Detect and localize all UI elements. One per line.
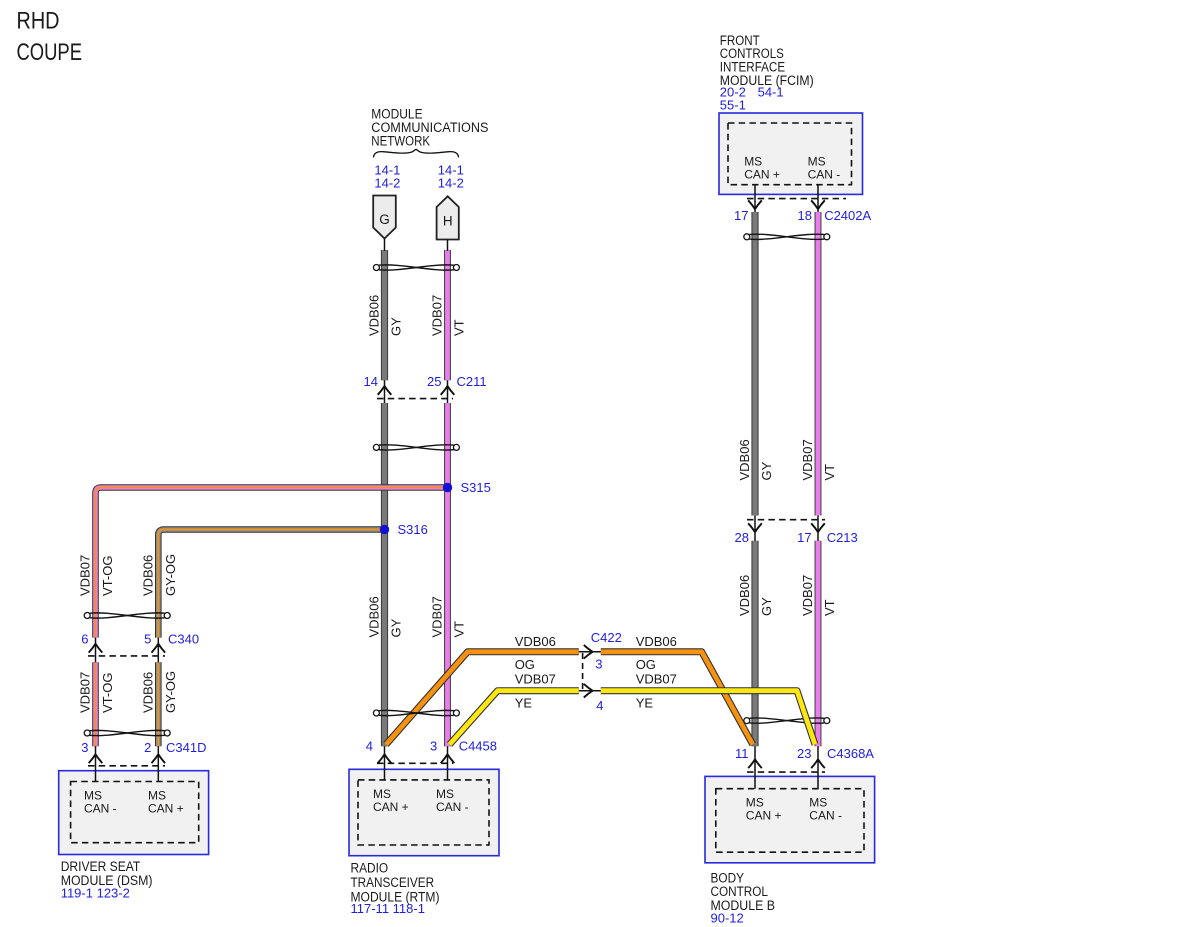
svg-text:CAN +: CAN +: [744, 167, 780, 181]
svg-text:23: 23: [797, 746, 811, 761]
svg-text:VDB06: VDB06: [140, 672, 155, 713]
wire VDB07 VT middle segment 2 (C211 to C4458 pin 3): [444, 403, 451, 746]
svg-text:CONTROL: CONTROL: [711, 884, 769, 899]
svg-text:C2402A: C2402A: [824, 208, 871, 223]
svg-text:GY: GY: [759, 461, 774, 480]
svg-text:OG: OG: [636, 657, 656, 672]
svg-text:11: 11: [735, 746, 749, 761]
connector C422 dashed line: [582, 653, 584, 690]
connector C4368A arrow pin 11: [748, 759, 762, 768]
svg-text:VT-OG: VT-OG: [100, 556, 115, 596]
svg-text:RHD: RHD: [17, 7, 60, 34]
svg-text:6: 6: [81, 632, 88, 647]
svg-text:GY-OG: GY-OG: [163, 554, 178, 596]
wire VDB06 OG from RTM pin 4 to C422 pin 3 left: [386, 652, 579, 745]
svg-text:DRIVER SEAT: DRIVER SEAT: [61, 859, 141, 874]
svg-text:OG: OG: [515, 657, 535, 672]
connector C2402A arrow pin 17: [748, 200, 762, 209]
svg-text:VDB07: VDB07: [515, 672, 556, 687]
svg-text:VT: VT: [452, 621, 467, 638]
wire VDB06 GY middle segment 2 (C211 to C4458 pin 4): [381, 403, 388, 746]
twisted pair symbol middle top: [373, 265, 459, 271]
svg-text:119-1 123-2: 119-1 123-2: [61, 886, 130, 901]
svg-text:MS: MS: [744, 154, 762, 168]
svg-text:54-1: 54-1: [758, 85, 784, 100]
svg-text:MS: MS: [808, 154, 826, 168]
svg-text:C4458: C4458: [459, 739, 497, 754]
svg-text:NETWORK: NETWORK: [371, 134, 430, 149]
svg-text:25: 25: [427, 374, 441, 389]
svg-text:VDB06: VDB06: [367, 295, 382, 336]
connector C340 arrow pin 6: [89, 644, 103, 653]
svg-text:VT: VT: [822, 464, 837, 481]
svg-text:TRANSCEIVER: TRANSCEIVER: [351, 875, 435, 890]
wire VDB07 VT-OG from C340 pin 6 to DSM pin 3: [92, 662, 99, 746]
svg-text:17: 17: [734, 208, 748, 223]
svg-text:VT-OG: VT-OG: [100, 673, 115, 713]
connector C4458 pin leads: [384, 746, 386, 780]
svg-text:VDB06: VDB06: [737, 575, 752, 616]
connector C340 arrow pin 5: [152, 644, 166, 653]
connector C340 dashed line: [88, 655, 165, 657]
svg-text:VDB07: VDB07: [430, 596, 445, 637]
twisted pair symbol left above C341D: [84, 730, 170, 736]
svg-text:CAN -: CAN -: [436, 800, 469, 814]
connector C211 arrow pin 14: [378, 386, 392, 395]
svg-text:MS: MS: [436, 787, 454, 801]
svg-text:CAN -: CAN -: [809, 809, 842, 823]
module box RTM: [349, 769, 499, 855]
svg-text:VDB06: VDB06: [140, 555, 155, 596]
connector C4368A arrow pin 23: [811, 759, 825, 768]
wire VDB07 VT right segment 1 (FCIM pin 18 to C213): [815, 212, 822, 516]
wire VDB06 GY right segment 2 (C213 to BCM pin 11): [751, 541, 758, 746]
module box FCIM: [719, 113, 863, 194]
connector C211 pin leads: [384, 380, 386, 403]
wire lead from H: [447, 240, 449, 252]
brace MODULE COMMUNICATIONS NETWORK: [374, 149, 459, 157]
connector C2402A dashed line: [747, 198, 846, 200]
wire VDB06 GY right segment 1 (FCIM pin 17 to C213): [751, 212, 758, 516]
connector C422 arrow pin 3: [584, 645, 593, 659]
connector C211 arrow pin 25: [441, 386, 455, 395]
svg-text:G: G: [379, 212, 390, 227]
connector G (in-line network connector): [373, 196, 396, 239]
connector C341D arrow pin 3: [89, 754, 103, 763]
connector C341D dashed line: [88, 765, 165, 767]
svg-text:4: 4: [366, 739, 373, 754]
connector C211 dashed line: [377, 398, 453, 400]
svg-text:MS: MS: [373, 787, 391, 801]
svg-text:VDB06: VDB06: [636, 634, 677, 649]
wire VDB06 GY middle segment 1 (G to C211): [381, 250, 388, 380]
svg-text:VDB07: VDB07: [78, 555, 93, 596]
svg-text:S316: S316: [398, 522, 428, 537]
connector C213 pin leads: [754, 516, 756, 541]
svg-text:VDB07: VDB07: [430, 295, 445, 336]
splice S316: [380, 525, 389, 534]
svg-text:5: 5: [144, 632, 151, 647]
svg-text:C340: C340: [168, 632, 199, 647]
svg-text:2: 2: [144, 740, 151, 755]
svg-text:VDB07: VDB07: [800, 575, 815, 616]
twisted pair symbol middle above S315: [373, 444, 459, 450]
svg-text:VT: VT: [822, 599, 837, 616]
svg-text:YE: YE: [515, 696, 533, 711]
wire VDB06 GY-OG from S316 to C340 pin 5: [158, 530, 384, 638]
svg-text:C211: C211: [457, 374, 487, 389]
svg-text:GY: GY: [389, 618, 404, 637]
svg-text:GY: GY: [389, 317, 404, 336]
svg-text:COUPE: COUPE: [17, 39, 83, 66]
svg-text:14-2: 14-2: [374, 176, 400, 191]
svg-text:CAN +: CAN +: [746, 809, 782, 823]
svg-text:55-1: 55-1: [720, 98, 746, 113]
connector C422 pin leads: [579, 651, 601, 653]
svg-text:C213: C213: [827, 530, 858, 545]
module box BCM: [705, 776, 875, 862]
wire VDB07 VT middle segment 1 (H to C211): [444, 250, 451, 380]
svg-text:VDB07: VDB07: [636, 672, 677, 687]
wire VDB07 VT right segment 2 (C213 to BCM pin 23): [815, 541, 822, 746]
svg-text:C4368A: C4368A: [827, 746, 874, 761]
connector C341D pin leads: [95, 746, 97, 781]
svg-text:VDB07: VDB07: [78, 672, 93, 713]
wire VDB07 YE from C422 pin 4 to BCM pin 23: [601, 691, 815, 745]
wire VDB06 GY-OG from C340 pin 5 to DSM pin 2: [155, 662, 162, 746]
connector C4458 arrow pin 3: [441, 754, 455, 763]
connector C213 dashed line: [747, 519, 825, 521]
svg-text:MS: MS: [746, 796, 764, 810]
svg-text:CAN +: CAN +: [148, 802, 184, 816]
svg-text:14: 14: [364, 374, 378, 389]
svg-text:3: 3: [81, 740, 88, 755]
connector C4368A dashed line: [747, 771, 825, 773]
connector C2402A pin leads: [754, 185, 756, 212]
svg-text:S315: S315: [461, 480, 491, 495]
connector C213 arrow pin 28: [748, 523, 762, 532]
wire VDB07 YE from RTM pin 3 to C422 pin 4 left: [450, 691, 579, 745]
twisted pair symbol right below C2402A: [744, 234, 830, 240]
connector C2402A arrow pin 18: [811, 200, 825, 209]
svg-text:BODY: BODY: [711, 870, 745, 885]
connector C213 arrow pin 17: [811, 523, 825, 532]
svg-text:GY-OG: GY-OG: [163, 671, 178, 713]
svg-text:90-12: 90-12: [711, 911, 744, 926]
svg-text:28: 28: [735, 530, 749, 545]
svg-text:3: 3: [595, 657, 602, 672]
svg-text:CAN -: CAN -: [808, 167, 841, 181]
connector C4458 arrow pin 4: [378, 754, 392, 763]
connector C4368A pin leads: [754, 746, 756, 789]
svg-text:YE: YE: [636, 696, 654, 711]
connector C341D arrow pin 2: [152, 754, 166, 763]
svg-text:VDB06: VDB06: [367, 596, 382, 637]
connector C4458 dashed line: [377, 762, 453, 764]
svg-text:H: H: [443, 213, 453, 228]
svg-text:VDB06: VDB06: [737, 439, 752, 480]
svg-text:RADIO: RADIO: [351, 861, 389, 876]
svg-text:GY: GY: [759, 597, 774, 616]
connector H (in-line network connector): [437, 196, 459, 239]
wire lead from G: [384, 239, 386, 252]
svg-text:14-2: 14-2: [438, 176, 464, 191]
svg-text:17: 17: [797, 530, 811, 545]
svg-text:CAN -: CAN -: [84, 802, 117, 816]
svg-text:MS: MS: [84, 789, 102, 803]
wire VDB07 VT-OG from S315 to C340 pin 6: [96, 488, 448, 638]
svg-text:VDB07: VDB07: [800, 439, 815, 480]
svg-text:3: 3: [430, 739, 437, 754]
svg-text:4: 4: [596, 698, 603, 713]
svg-text:18: 18: [798, 208, 812, 223]
wire VDB06 OG from C422 pin 3 to BCM pin 11: [601, 652, 753, 745]
twisted pair symbol left above C340: [84, 613, 170, 619]
twisted pair symbol middle above C4458: [373, 710, 459, 716]
connector C340 pin leads: [95, 638, 97, 663]
svg-text:MS: MS: [148, 789, 166, 803]
twisted pair symbol right above C4368A: [744, 718, 830, 724]
splice S315: [443, 483, 452, 492]
svg-text:CAN +: CAN +: [373, 800, 409, 814]
svg-text:VDB06: VDB06: [515, 634, 556, 649]
module box DSM: [59, 771, 209, 855]
svg-text:C341D: C341D: [166, 740, 206, 755]
connector C422 arrow pin 4: [584, 684, 593, 698]
svg-text:C422: C422: [591, 630, 622, 645]
svg-text:VT: VT: [452, 319, 467, 336]
svg-text:MS: MS: [809, 796, 827, 810]
svg-text:117-11 118-1: 117-11 118-1: [351, 901, 425, 916]
